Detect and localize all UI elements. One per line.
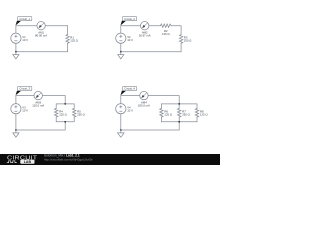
wire ammeter to R2 C2 — [149, 25, 161, 27]
svg-text:26.67 mA: 26.67 mA — [139, 34, 151, 38]
svg-text:250 Ω: 250 Ω — [184, 39, 192, 43]
voltage source V1 — [11, 33, 21, 43]
wire ammeter to R1 C1 — [45, 26, 67, 35]
ammeter AM3 — [34, 91, 42, 99]
wire top rail C1 — [16, 26, 37, 33]
wire bottom rail C2 — [121, 43, 181, 51]
svg-text:Circuit_1: Circuit_1 — [19, 17, 30, 21]
junction dot bank top C3 — [64, 103, 66, 105]
ground C2 — [120, 51, 122, 53]
logo LAB box — [20, 160, 34, 164]
ammeter AM2 — [141, 22, 149, 30]
CircuitLab logo text — [7, 156, 38, 164]
bank bottom rail C3 — [56, 117, 74, 122]
bank mid bottom lead C4 — [178, 117, 180, 122]
resistor R4 zigzag — [55, 108, 58, 117]
wire bottom rail C1 — [16, 43, 68, 51]
resistor R2 zigzag horizontal — [161, 24, 172, 27]
junction dot bank bottom C4 — [178, 121, 180, 123]
wire top rail C4 — [121, 96, 140, 104]
footer bar — [0, 154, 220, 165]
svg-text:Circuit_2: Circuit_2 — [124, 17, 135, 21]
resistor R1 zigzag — [66, 35, 69, 44]
resistor R8 zigzag — [195, 108, 198, 117]
svg-text:200.0 mA: 200.0 mA — [138, 103, 150, 107]
ground C4 — [120, 129, 122, 131]
resistor R6 zigzag — [160, 108, 163, 117]
svg-text:125 Ω: 125 Ω — [59, 112, 67, 116]
wire top rail C2 — [121, 26, 141, 33]
svg-text:125 Ω: 125 Ω — [200, 112, 208, 116]
name flag Circuit_4 — [120, 86, 136, 95]
name flag Circuit_1 — [16, 16, 32, 25]
wire bank to bottom C4 — [121, 114, 179, 130]
wire top rail C3 — [16, 96, 34, 104]
component labels — [22, 29, 207, 116]
voltage source V2 — [116, 33, 126, 43]
svg-text:10 V: 10 V — [22, 38, 28, 42]
svg-text:80.00 mA: 80.00 mA — [35, 34, 47, 38]
wire ammeter to bank C3 — [43, 96, 66, 104]
resistor R7 zigzag — [178, 108, 181, 117]
svg-text:10 V: 10 V — [127, 109, 133, 113]
bank top rail C4 — [161, 104, 197, 109]
wire ammeter to bank C4 — [148, 96, 179, 104]
svg-text:10 V: 10 V — [127, 38, 133, 42]
bank bottom rail C4 — [161, 117, 197, 122]
logo waveform — [7, 161, 17, 163]
wire bank to bottom C3 — [16, 114, 65, 130]
svg-text:250 Ω: 250 Ω — [77, 112, 85, 116]
svg-text:125 Ω: 125 Ω — [162, 32, 170, 36]
svg-text:Circuit_3: Circuit_3 — [19, 87, 30, 91]
svg-text:120.0 mA: 120.0 mA — [32, 103, 44, 107]
name flag Circuit_3 — [16, 86, 32, 95]
svg-text:10 V: 10 V — [22, 109, 28, 113]
svg-text:LAB: LAB — [24, 160, 32, 164]
svg-text:250 Ω: 250 Ω — [182, 112, 190, 116]
resistor R5 zigzag — [73, 108, 76, 117]
junction dot bank bottom C3 — [64, 121, 66, 123]
ammeter AM1 — [37, 22, 45, 30]
bank top rail C3 — [56, 104, 74, 109]
svg-text:http://circuitlab.com/c6hj42gy: http://circuitlab.com/c6hj42gyu2sz3b — [44, 158, 93, 162]
voltage source V4 — [116, 104, 126, 114]
svg-text:125 Ω: 125 Ω — [164, 112, 172, 116]
wire R2 to R3 C2 — [171, 26, 181, 35]
svg-text:125 Ω: 125 Ω — [70, 39, 78, 43]
svg-text:Circuit_4: Circuit_4 — [124, 87, 135, 91]
name flag Circuit_2 — [120, 16, 136, 25]
junction dot bank top C4 — [178, 103, 180, 105]
resistor R3 zigzag — [179, 35, 182, 44]
voltage source V3 — [11, 104, 21, 114]
ground C3 — [15, 129, 17, 131]
bank mid top lead C4 — [178, 104, 180, 109]
ammeter AM4 — [140, 91, 148, 99]
ground C1 — [15, 51, 17, 53]
